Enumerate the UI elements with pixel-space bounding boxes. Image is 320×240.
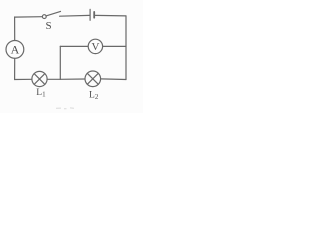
svg-text:A: A [11, 43, 20, 57]
wire switch-to-battery segment [60, 14, 90, 17]
wire left side upper [14, 17, 16, 41]
lamp L1 [32, 71, 47, 86]
battery [90, 9, 94, 20]
wire top-left segment [15, 16, 43, 18]
lamp L2 [85, 71, 101, 87]
ammeter A [6, 41, 24, 59]
wire voltmeter branch right horizontal [103, 45, 126, 47]
wire right side [125, 16, 127, 80]
wire left side lower [14, 58, 16, 79]
svg-text:V: V [92, 41, 100, 53]
wire junction-to-L2 segment [60, 78, 85, 80]
wire battery-to-corner segment [95, 14, 126, 17]
wire bottom-left segment [15, 78, 32, 80]
faint print-through smudge [56, 107, 74, 110]
wire L2-to-corner segment [101, 78, 126, 81]
voltmeter V [88, 39, 102, 53]
wire L1-to-junction segment [47, 78, 60, 80]
svg-text:L2: L2 [89, 91, 99, 102]
switch S [42, 11, 60, 18]
svg-text:L1: L1 [36, 88, 46, 99]
wire voltmeter stub vertical [59, 46, 61, 79]
wire voltmeter branch left horizontal [60, 45, 88, 47]
svg-text:S: S [45, 20, 51, 32]
